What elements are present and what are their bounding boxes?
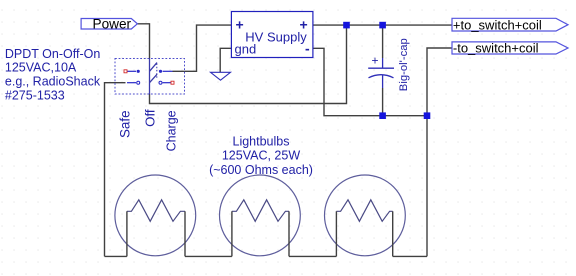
- DPDT switch S1: pole 1 left contact dot: [137, 70, 140, 73]
- port flag -to_switch+coil: [452, 41, 568, 56]
- svg-text:Charge: Charge: [164, 110, 178, 151]
- lamp B2 envelope: [220, 175, 301, 256]
- lamp B1 filament: [127, 200, 185, 222]
- lamp B3 right leg: [392, 211, 394, 256]
- wire: bottom rail segment 2: [185, 255, 232, 257]
- DPDT switch S1: pole 2 arm: [150, 74, 158, 82]
- svg-text:Big-ol'-cap: Big-ol'-cap: [398, 38, 410, 91]
- ground: [211, 72, 231, 80]
- wire: bottom rail segment 4: [393, 255, 427, 257]
- DPDT switch S1: pole 1 right contact dot: [159, 70, 162, 73]
- wire: HV supply + (right) to +to_switch+coil flag: [313, 24, 452, 26]
- svg-text:+: +: [372, 54, 379, 68]
- wire: switch bottom-left contact to left drop: [105, 83, 126, 257]
- lamp B3 left leg: [335, 211, 337, 256]
- lamp B3 envelope: [325, 175, 406, 256]
- annotation: DPDT description: [5, 47, 101, 103]
- svg-text:Safe: Safe: [118, 110, 133, 138]
- DPDT switch S1: pole 2 left pin lead: [127, 82, 136, 84]
- lamp B2 right leg: [288, 211, 290, 256]
- DPDT switch S1: pole 1 right pin lead: [163, 70, 173, 72]
- svg-text:125VAC, 25W: 125VAC, 25W: [222, 149, 300, 163]
- wire: HV supply gnd to ground symbol: [220, 48, 231, 72]
- wire: capacitor top lead drop: [382, 25, 384, 58]
- junction at cap bottom: [379, 112, 386, 119]
- wire: switch top-right contact to HV supply + (left): [173, 25, 232, 71]
- wire: right drop to -to_switch+coil flag: [427, 48, 452, 256]
- wire: HV supply - to bottom cap rail: [313, 48, 427, 115]
- DPDT switch S1: pole 1 left pin lead: [127, 70, 136, 72]
- svg-text:Power: Power: [93, 16, 132, 31]
- svg-text:-: -: [305, 41, 310, 57]
- svg-text:(~600 Ohms each): (~600 Ohms each): [209, 163, 313, 177]
- svg-text:+to_switch+coil: +to_switch+coil: [453, 17, 542, 32]
- lamp B1 envelope: [115, 175, 196, 256]
- capacitor C1 curved plate: [369, 75, 394, 88]
- DPDT switch S1: unconnected pin marker top-left: [124, 70, 127, 73]
- svg-text:+: +: [236, 17, 244, 33]
- DPDT switch S1: mechanical link (dashed): [156, 64, 158, 80]
- svg-text:e.g., RadioShack: e.g., RadioShack: [5, 75, 101, 89]
- wire: switch common bottom to mid rail: [150, 25, 347, 103]
- svg-text:-to_switch+coil: -to_switch+coil: [453, 41, 539, 56]
- svg-text:Off: Off: [142, 109, 157, 127]
- junction at HV+ rail left: [343, 22, 350, 29]
- DPDT switch S1: pole 2 right pin lead: [163, 82, 171, 84]
- capacitor C1 top plate: [368, 58, 394, 68]
- wire: capacitor bottom lead drop: [382, 88, 384, 116]
- lamp B2 left leg: [231, 211, 233, 256]
- svg-text:DPDT On-Off-On: DPDT On-Off-On: [5, 47, 100, 61]
- DPDT switch S1: common vertical bar: [149, 59, 151, 95]
- svg-text:Lightbulbs: Lightbulbs: [233, 135, 290, 149]
- HV Supply box U1: [231, 12, 313, 58]
- lamp B1 right leg: [184, 211, 186, 256]
- lamp B1 left leg: [126, 211, 128, 256]
- svg-text:#275-1533: #275-1533: [5, 89, 65, 103]
- DPDT switch S1: pole 2 right contact (open): [159, 81, 162, 84]
- DPDT switch S1: pole 2 left contact (open): [137, 81, 140, 84]
- lamp B3 filament: [336, 200, 392, 222]
- svg-text:125VAC,10A: 125VAC,10A: [5, 61, 77, 75]
- DPDT switch S1: dashed selection box: [115, 59, 185, 95]
- junction at cap top: [379, 22, 386, 29]
- port flag +to_switch+coil: [452, 17, 568, 32]
- junction at bottom right rail: [424, 112, 431, 119]
- Power flag: [81, 16, 137, 31]
- wire: bottom rail segment 3: [289, 255, 336, 257]
- DPDT switch S1: pole 1 arm: [150, 63, 158, 72]
- wire: bottom rail segment 1: [105, 255, 127, 257]
- svg-text:gnd: gnd: [235, 42, 257, 57]
- wire: Power flag to switch common vertical: [137, 24, 149, 59]
- DPDT switch S1: unconnected pin marker bottom-right: [171, 81, 174, 84]
- lamp B2 filament: [232, 200, 289, 222]
- annotation: lightbulbs description: [209, 135, 313, 178]
